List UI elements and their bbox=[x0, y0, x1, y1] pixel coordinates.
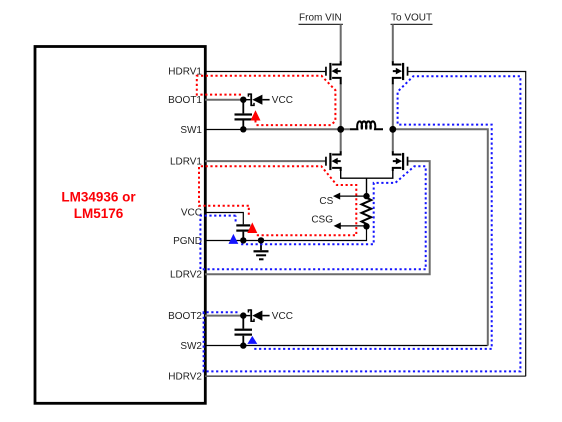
node SW1 cap junction bbox=[240, 126, 246, 132]
svg-text:SW1: SW1 bbox=[180, 125, 202, 136]
svg-text:SW2: SW2 bbox=[180, 341, 202, 352]
svg-text:From VIN: From VIN bbox=[299, 13, 342, 24]
node SW2 bbox=[389, 126, 396, 133]
VCC label at D1 bbox=[272, 95, 293, 106]
transistor Q2 bbox=[325, 151, 341, 171]
node VCC cap PGND junction bbox=[240, 237, 246, 243]
wire Q3 source to SW2 node bbox=[392, 84, 394, 130]
wire SW1 pin segment bbox=[205, 129, 243, 131]
wire HDRV2 pin segment bbox=[205, 375, 526, 377]
svg-text:LDRV2: LDRV2 bbox=[170, 270, 202, 281]
blue loop 2 HDRV2 gate drive bbox=[204, 76, 521, 371]
svg-text:LM5176: LM5176 bbox=[74, 206, 124, 221]
node CSG sense bottom bbox=[363, 223, 369, 229]
svg-text:LM34936 or: LM34936 or bbox=[61, 190, 136, 205]
pin label LDRV1 bbox=[170, 157, 202, 168]
svg-text:LDRV1: LDRV1 bbox=[170, 157, 202, 168]
node To VOUT label bbox=[391, 13, 433, 25]
wire BOOT1 bbox=[205, 99, 243, 101]
pin label HDRV1 bbox=[168, 67, 202, 78]
capacitor C1 boot1 bbox=[235, 100, 253, 130]
wire LDRV1 gate trace bbox=[205, 160, 325, 162]
svg-text:VCC: VCC bbox=[272, 311, 293, 322]
VCC label at D2 bbox=[272, 311, 293, 322]
transistor Q4 bbox=[393, 151, 409, 171]
capacitor C2 boot2 bbox=[235, 316, 253, 346]
svg-text:VCC: VCC bbox=[181, 208, 202, 219]
svg-text:BOOT2: BOOT2 bbox=[168, 311, 202, 322]
pin label SW2 bbox=[180, 341, 202, 352]
svg-text:PGND: PGND bbox=[173, 236, 202, 247]
wire VCC bbox=[205, 213, 243, 225]
svg-text:VCC: VCC bbox=[272, 95, 293, 106]
CSG label bbox=[311, 214, 333, 225]
IC U1 LM34936/LM5176 box bbox=[35, 47, 205, 404]
inductor L1 bbox=[350, 121, 383, 129]
CSG arrow bbox=[334, 222, 367, 229]
wire PGND return bbox=[205, 226, 367, 240]
svg-text:HDRV2: HDRV2 bbox=[168, 371, 202, 382]
diode D2 schottky BOOT2-VCC bbox=[243, 309, 269, 322]
resistor R1 current sense bbox=[362, 196, 372, 226]
svg-text:CS: CS bbox=[319, 196, 333, 207]
arrow red current direction vcc cap bbox=[247, 222, 257, 233]
IC U1 label bbox=[61, 190, 136, 222]
pin label LDRV2 bbox=[170, 270, 202, 281]
wire SW1 node to Q2 drain bbox=[340, 129, 342, 152]
pin label SW1 bbox=[180, 125, 202, 136]
node boot1 junction bbox=[240, 97, 246, 103]
blue loop 1 LDRV2 gate drive bbox=[200, 166, 425, 269]
arrow blue current direction pgnd bbox=[229, 234, 239, 244]
wire SW2 node to Q4 drain bbox=[392, 129, 394, 152]
transistor Q3 bbox=[393, 61, 409, 84]
red loop 2 LDRV1 gate drive bbox=[199, 166, 356, 235]
arrow red current direction boot1 bbox=[251, 110, 261, 123]
svg-text:BOOT1: BOOT1 bbox=[168, 95, 202, 106]
node boot2 junction bbox=[240, 312, 246, 318]
wire SW2 long route bbox=[393, 129, 488, 345]
CS arrow bbox=[333, 193, 367, 200]
red loop 1 HDRV1 gate drive bbox=[197, 76, 336, 125]
wire bridge bottom bar bbox=[341, 168, 393, 196]
svg-text:To VOUT: To VOUT bbox=[391, 13, 432, 24]
transistor Q1 bbox=[325, 61, 341, 84]
svg-text:CSG: CSG bbox=[311, 214, 333, 225]
capacitor C3 VCC decoupling bbox=[236, 224, 250, 240]
node SW1 bbox=[337, 126, 344, 133]
node PGND ground junction bbox=[258, 237, 264, 243]
wire LDRV2 gate trace bbox=[205, 161, 430, 274]
wire BOOT2 bbox=[205, 315, 243, 317]
wire SW2 pin segment bbox=[205, 345, 488, 347]
wire HDRV1 gate trace bbox=[205, 71, 325, 73]
pin label VCC bbox=[181, 208, 202, 219]
diode D1 schottky BOOT1-VCC bbox=[243, 93, 269, 106]
pin label PGND bbox=[173, 236, 202, 247]
wire SW1 node to bridge bbox=[243, 128, 350, 130]
pin label BOOT2 bbox=[168, 311, 202, 322]
wire VOUT rail bbox=[392, 24, 394, 61]
pin label HDRV2 bbox=[168, 371, 202, 382]
pin label BOOT1 bbox=[168, 95, 202, 106]
node From VIN label bbox=[299, 13, 343, 25]
wire Q1 source to SW1 node bbox=[340, 84, 342, 130]
CS label bbox=[319, 196, 333, 207]
node CS sense top bbox=[363, 193, 369, 199]
ground bbox=[254, 240, 269, 260]
wire HDRV2 gate route bbox=[407, 72, 525, 377]
wire VIN rail bbox=[340, 24, 342, 61]
node SW2 cap junction bbox=[240, 342, 246, 348]
arrow blue current direction boot2 bbox=[247, 336, 257, 344]
